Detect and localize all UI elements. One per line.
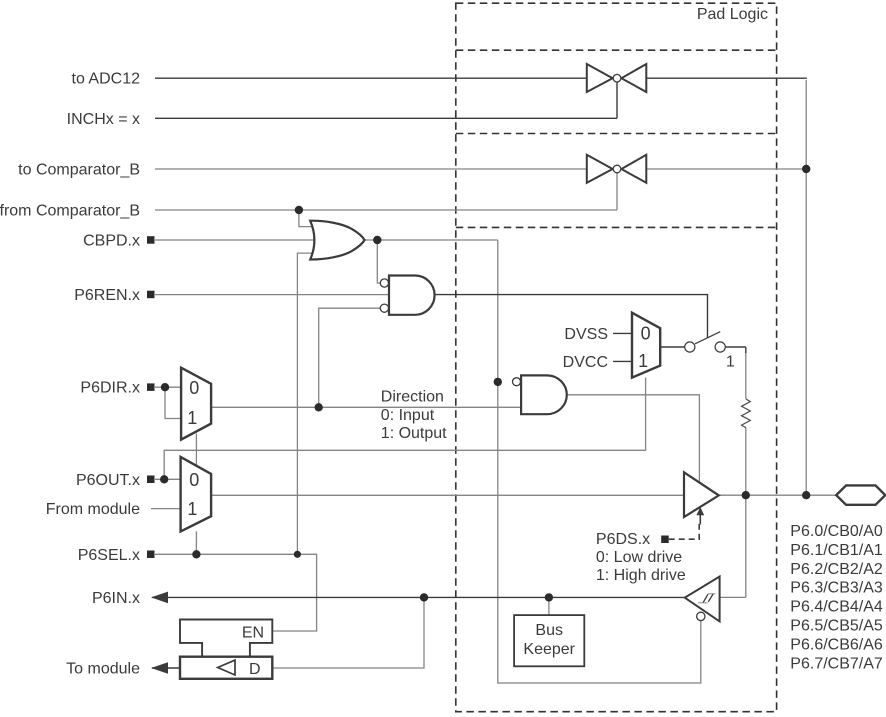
svg-text:P6DS.x: P6DS.x: [596, 531, 650, 548]
svg-text:P6.6/CB6/A6: P6.6/CB6/A6: [790, 636, 883, 653]
svg-text:0: Low drive: 0: Low drive: [596, 549, 682, 566]
svg-text:Keeper: Keeper: [523, 641, 575, 658]
svg-text:1: 1: [187, 499, 197, 519]
svg-text:to Comparator_B: to Comparator_B: [18, 162, 140, 179]
svg-text:INCHx = x: INCHx = x: [67, 111, 140, 128]
svg-text:Pad Logic: Pad Logic: [697, 6, 768, 23]
svg-text:D: D: [249, 661, 261, 678]
svg-text:P6OUT.x: P6OUT.x: [76, 472, 140, 489]
svg-text:to ADC12: to ADC12: [72, 71, 141, 88]
svg-text:1: 1: [638, 351, 648, 371]
svg-text:P6SEL.x: P6SEL.x: [78, 547, 140, 564]
svg-text:To module: To module: [66, 661, 140, 678]
svg-text:0: Input: 0: Input: [381, 407, 435, 424]
svg-text:0: 0: [189, 378, 199, 398]
svg-text:P6.1/CB1/A1: P6.1/CB1/A1: [790, 542, 883, 559]
svg-text:from Comparator_B: from Comparator_B: [0, 203, 140, 220]
svg-text:P6.4/CB4/A4: P6.4/CB4/A4: [790, 599, 883, 616]
svg-text:1: 1: [726, 353, 735, 370]
svg-text:P6.0/CB0/A0: P6.0/CB0/A0: [790, 523, 883, 540]
svg-text:P6.7/CB7/A7: P6.7/CB7/A7: [790, 655, 883, 672]
svg-text:P6DIR.x: P6DIR.x: [80, 380, 140, 397]
svg-text:Bus: Bus: [535, 622, 563, 639]
svg-text:0: 0: [189, 470, 199, 490]
svg-text:0: 0: [641, 323, 651, 343]
svg-text:CBPD.x: CBPD.x: [83, 233, 140, 250]
svg-text:From module: From module: [46, 501, 140, 518]
svg-text:P6.5/CB5/A5: P6.5/CB5/A5: [790, 618, 883, 635]
svg-text:1: High drive: 1: High drive: [596, 567, 686, 584]
svg-text:DVCC: DVCC: [563, 354, 608, 371]
svg-text:P6.2/CB2/A2: P6.2/CB2/A2: [790, 561, 883, 578]
svg-text:DVSS: DVSS: [564, 326, 608, 343]
svg-text:P6.3/CB3/A3: P6.3/CB3/A3: [790, 580, 883, 597]
svg-text:1: 1: [187, 408, 197, 428]
svg-text:EN: EN: [242, 624, 264, 641]
svg-text:P6REN.x: P6REN.x: [74, 287, 140, 304]
svg-text:Direction: Direction: [381, 389, 444, 406]
svg-text:P6IN.x: P6IN.x: [92, 590, 140, 607]
svg-text:1: Output: 1: Output: [381, 425, 447, 442]
